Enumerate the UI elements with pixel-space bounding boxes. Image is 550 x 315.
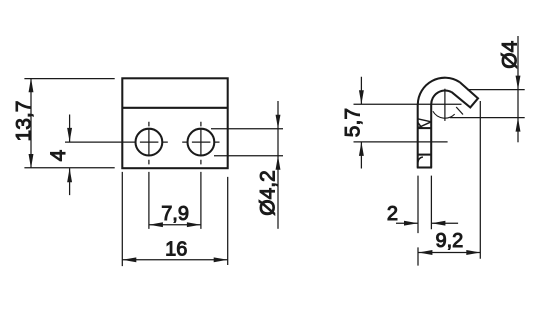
dimension 7,9 arrows — [149, 222, 163, 227]
side view lower hole band lines — [418, 154, 432, 156]
dimension 16 extension lines — [122, 172, 227, 266]
hole H1 (left, Ø4.2) — [136, 129, 163, 156]
svg-text:9,2: 9,2 — [435, 230, 463, 252]
side view strip bottom edge — [417, 166, 432, 168]
dimension 13,7 arrows — [29, 78, 34, 92]
hole H1 vertical centerline — [148, 122, 150, 165]
svg-text:Ø4,2: Ø4,2 — [256, 170, 279, 216]
dimension 13,7 extension lines — [24, 79, 114, 168]
dimension 2 extension lines — [418, 176, 431, 266]
side view upper hole band lines — [418, 119, 432, 128]
svg-text:16: 16 — [165, 239, 187, 261]
svg-text:2: 2 — [387, 203, 398, 225]
side view hook inner circle (thin lower arc) — [433, 111, 455, 118]
side view strip right edge — [430, 104, 432, 167]
svg-text:7,9: 7,9 — [161, 203, 189, 225]
side view strip left edge — [417, 104, 419, 167]
dimension 9,2 line — [418, 252, 480, 254]
svg-text:5,7: 5,7 — [342, 108, 365, 137]
dimension Ø4,2 arrows — [276, 115, 281, 129]
hole H2 vertical centerline — [200, 122, 202, 165]
dimension 9,2 arrows — [418, 250, 432, 255]
dimension 7,9 line — [149, 224, 201, 226]
dimension Ø4 arrows — [516, 76, 521, 90]
dimension Ø4,2 line — [277, 101, 279, 229]
dimension 4 line segments — [69, 115, 71, 196]
front view plate outline — [122, 78, 227, 168]
dimension 16 arrows — [122, 257, 136, 262]
dimension 2 arrows — [404, 221, 418, 226]
dimension 9,2 extension line — [479, 101, 481, 259]
side view hook tip — [452, 82, 478, 107]
dimension 5,7 arrows — [359, 90, 364, 104]
dimension 4 arrows — [67, 128, 72, 142]
svg-text:Ø4: Ø4 — [499, 40, 522, 68]
dimension 16 line — [122, 259, 227, 261]
front view fold line — [122, 107, 227, 109]
hole H2 horizontal centerline — [182, 141, 219, 143]
dimension Ø4,2 extension lines — [211, 129, 283, 156]
side view hook outer arc — [418, 78, 460, 105]
hole H2 (right, Ø4.2) — [188, 129, 215, 156]
dimension Ø4 extension lines — [450, 90, 525, 118]
hook center horizontal centerline / 5,7 extension — [354, 103, 462, 105]
dimension 5,7 line segments — [360, 77, 362, 169]
side view hole centerline / 5,7 extension — [354, 141, 448, 143]
dimension Ø4 line — [517, 36, 519, 142]
hook center vertical centerline — [444, 89, 446, 121]
svg-text:13,7: 13,7 — [12, 101, 35, 142]
hole H1 horizontal centerline — [65, 141, 168, 143]
side view hook inner arc — [431, 90, 451, 104]
side view tip inner edge mark — [456, 107, 463, 115]
dimension 2 line segments — [396, 222, 458, 224]
dimension 13,7 line — [30, 79, 32, 168]
dimension 7,9 extension lines — [149, 172, 201, 229]
svg-text:4: 4 — [47, 149, 70, 161]
